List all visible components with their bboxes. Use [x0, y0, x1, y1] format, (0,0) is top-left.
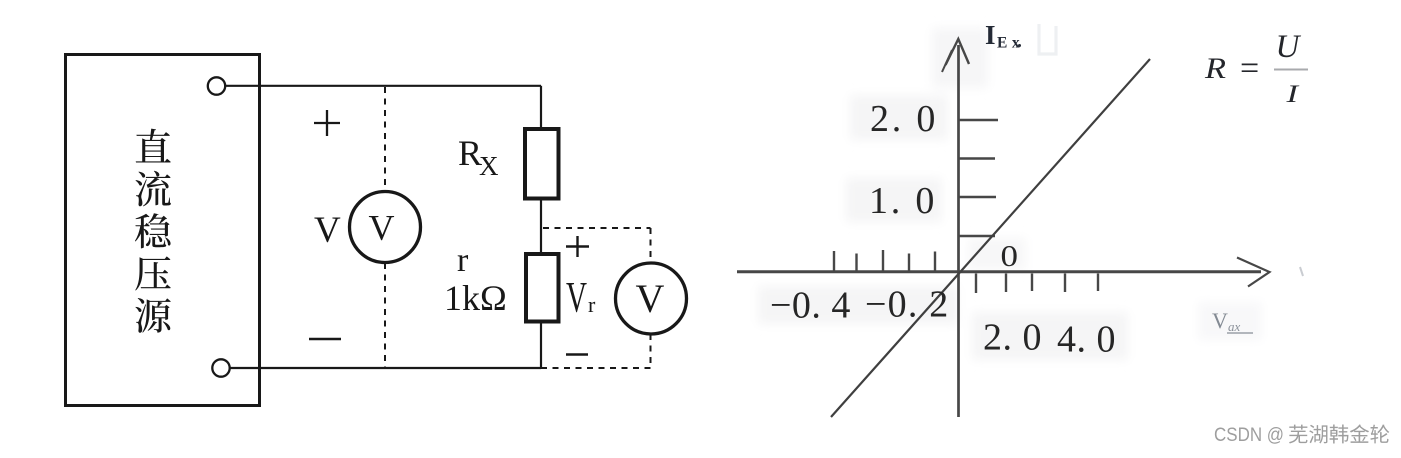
svg-text:V: V	[314, 210, 341, 251]
svg-text:ax: ax	[1228, 319, 1241, 334]
svg-text:−0. 2: −0. 2	[865, 284, 949, 326]
svg-text:1. 0: 1. 0	[869, 180, 937, 222]
svg-text:2. 0: 2. 0	[983, 317, 1042, 359]
svg-text:1kΩ: 1kΩ	[444, 278, 507, 318]
svg-text:R: R	[1204, 52, 1226, 85]
svg-text:U: U	[1276, 29, 1302, 65]
svg-text:r: r	[457, 242, 469, 279]
svg-text:Ex: Ex	[997, 35, 1024, 52]
svg-text:4. 0: 4. 0	[1057, 319, 1116, 361]
svg-text:V: V	[636, 276, 665, 321]
svg-text:X: X	[479, 151, 499, 181]
svg-text:r: r	[588, 292, 596, 317]
svg-text:V: V	[566, 275, 587, 322]
svg-text:I: I	[985, 20, 996, 50]
svg-text:V: V	[369, 208, 395, 248]
svg-text:=: =	[1240, 50, 1259, 87]
svg-text:2. 0: 2. 0	[870, 98, 938, 140]
svg-text:0: 0	[1001, 238, 1019, 273]
svg-text:V: V	[1212, 308, 1228, 333]
svg-text:−0. 4: −0. 4	[770, 285, 851, 327]
svg-text:CSDN @: CSDN @	[1214, 425, 1284, 446]
